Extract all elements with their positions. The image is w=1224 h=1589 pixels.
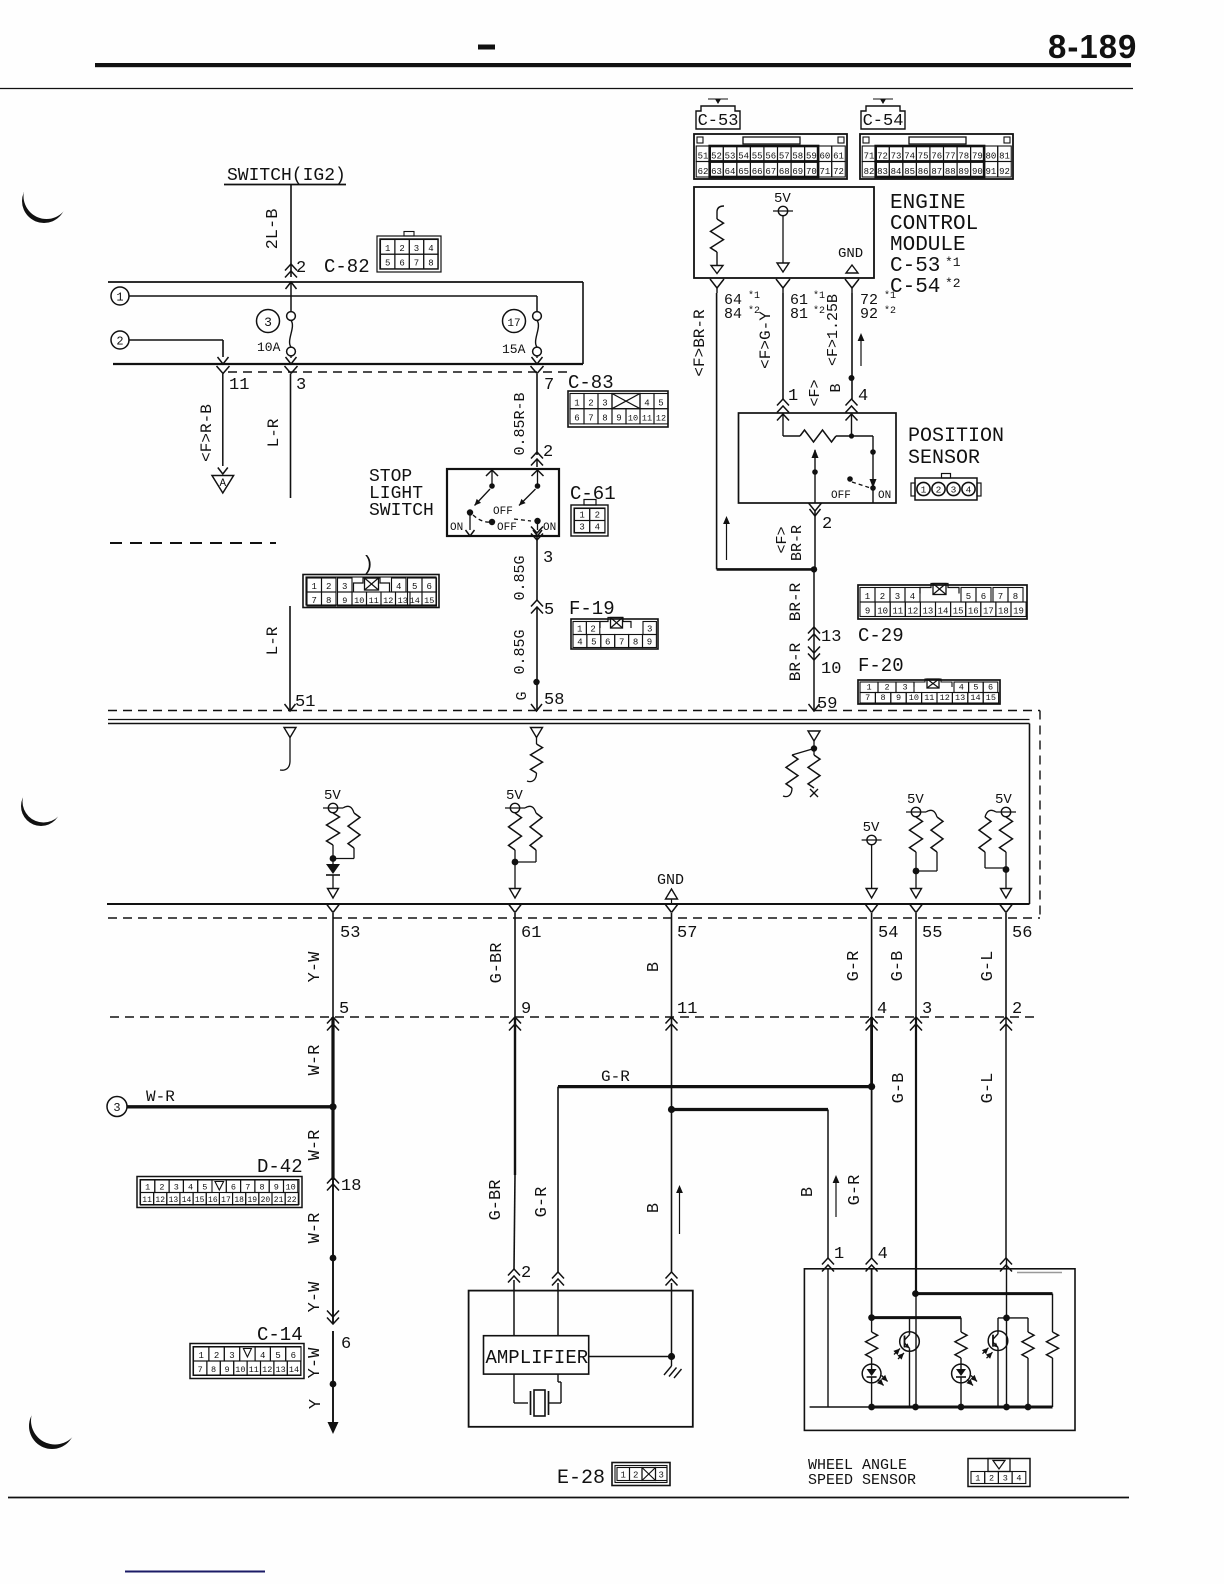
svg-text:56: 56 [765,151,776,161]
node 1 [111,287,129,305]
connector C-14 pin grid [190,1344,304,1379]
svg-text:7: 7 [619,637,624,647]
svg-text:75: 75 [918,151,929,161]
svg-text:5: 5 [591,637,596,647]
wire G-B (55-3) [915,913,917,1017]
svg-text:7: 7 [312,596,317,606]
amplifier input wires inside box [513,1280,515,1336]
svg-text:9: 9 [342,596,347,606]
wire B inside wheel box [827,1269,829,1407]
svg-text:6: 6 [341,1335,351,1354]
svg-text:8: 8 [1013,592,1018,602]
harness pin 3 [910,1017,922,1024]
svg-text:7: 7 [588,414,593,424]
svg-text:OFF: OFF [831,490,851,502]
wire Y-W lower [332,1331,334,1384]
svg-text:76: 76 [931,151,942,161]
svg-text:15: 15 [195,1196,205,1205]
svg-text:10: 10 [877,606,888,616]
svg-text:G-B: G-B [889,951,908,982]
svg-text:L-R: L-R [264,626,282,655]
svg-text:W-R: W-R [146,1088,175,1106]
svg-text:1: 1 [975,1473,980,1483]
svg-text:83: 83 [877,167,888,177]
svg-text:3: 3 [229,1351,234,1361]
thick link G-R node [872,1316,961,1319]
potentiometer resistor [800,430,836,442]
switch left pole [486,470,498,476]
resistor branch inner right [1027,1318,1029,1332]
svg-text:2: 2 [399,244,404,254]
svg-text:12: 12 [262,1365,272,1375]
svg-text:11: 11 [369,596,379,606]
svg-text:2: 2 [884,682,889,692]
svg-text:3: 3 [414,244,419,254]
svg-text:4: 4 [260,1351,265,1361]
svg-text:POSITION: POSITION [908,425,1004,448]
wire (F)G-Y from pin 61 [782,293,784,399]
junction dot G-L inside box [1003,1315,1010,1322]
svg-text:4: 4 [877,1000,887,1019]
control unit box [108,719,1030,721]
svg-text:72: 72 [833,167,844,177]
svg-text:L-R: L-R [265,418,283,447]
svg-text:8: 8 [602,414,607,424]
svg-text:4: 4 [878,1245,888,1264]
svg-text:7: 7 [865,693,870,703]
node 3 [107,1097,127,1117]
wire 0.85G lower [536,607,538,711]
svg-text:E-28: E-28 [557,1467,605,1490]
wire 2L-B [290,185,292,278]
wire G-B through box [915,1294,917,1407]
wheel sensor pin 1 [822,1258,834,1265]
svg-text:Y-W: Y-W [306,1281,325,1312]
resistor LED1 branch [871,1269,873,1318]
amplifier pin 2 [508,1269,520,1276]
svg-text:91: 91 [986,167,997,177]
svg-text:G-B: G-B [890,1073,909,1104]
position sensor pin 1 [777,399,789,406]
svg-text:92: 92 [999,167,1010,177]
svg-text:4: 4 [428,244,433,254]
wire Y-W (53-5) [332,913,334,1017]
svg-text:61: 61 [833,151,844,161]
svg-text:5: 5 [973,682,978,692]
svg-text:57: 57 [677,924,697,943]
svg-text:C-53: C-53 [890,255,940,278]
svg-text:C-82: C-82 [324,256,370,278]
svg-text:4: 4 [858,387,868,406]
svg-text:12: 12 [155,1196,165,1205]
resistor LED2 branch [960,1318,962,1332]
connector C-29 pin grid [858,585,1027,619]
position sensor pin 4 [846,399,858,406]
svg-text:5V: 5V [774,191,791,207]
svg-text:SWITCH(IG2): SWITCH(IG2) [227,166,346,186]
svg-text:77: 77 [945,151,956,161]
svg-text:4: 4 [966,485,972,496]
control unit dashed boundary [108,710,1040,712]
svg-text:79: 79 [972,151,983,161]
junction dot on G wire [533,679,539,685]
sensor switch ON contact [872,436,874,480]
svg-text:2: 2 [543,443,553,462]
svg-text:6: 6 [988,682,993,692]
svg-text:11: 11 [642,414,652,424]
svg-text:3: 3 [543,549,553,568]
svg-text:9: 9 [616,414,621,424]
svg-text:14: 14 [289,1365,299,1375]
svg-text:11: 11 [892,606,903,616]
svg-text:53: 53 [725,151,736,161]
stop light switch box [447,469,559,536]
svg-text:13: 13 [169,1196,179,1205]
svg-text:22: 22 [287,1196,297,1205]
svg-text:17: 17 [507,318,520,330]
svg-text:5: 5 [339,1000,349,1019]
svg-text:<F>1.25B: <F>1.25B [825,294,842,366]
svg-text:15: 15 [424,596,434,606]
wire G-L down to wheel sensor [1005,1017,1007,1258]
svg-text:81: 81 [790,306,808,323]
connector F-20 pin grid [858,680,1000,704]
amplifier output line [589,1356,672,1358]
svg-text:<F>G-Y: <F>G-Y [757,311,775,369]
svg-text:2: 2 [326,582,331,592]
svg-text:<F>R-B: <F>R-B [198,404,216,462]
svg-text:59: 59 [806,151,817,161]
svg-text:2: 2 [214,1351,219,1361]
svg-text:OFF: OFF [497,522,517,534]
svg-text:4: 4 [644,399,649,409]
svg-text:51: 51 [295,693,315,712]
position sensor box [739,413,897,503]
svg-text:1: 1 [198,1351,203,1361]
connector D-42 pin grid [137,1177,302,1208]
fuse 17 (15A) [503,310,526,333]
up arrow beside 1.25B wire [860,335,862,366]
wire G-L through box [1006,1318,1008,1407]
connector C-53 pin grid [694,134,847,179]
svg-text:51: 51 [698,151,709,161]
svg-text:10: 10 [909,693,919,703]
LED D2 [952,1364,971,1383]
C-82 pin 2 wire crossing into block [286,282,297,289]
svg-text:*1: *1 [813,290,825,302]
svg-text:W-R: W-R [306,1213,325,1244]
wire G-BR to amplifier [514,1017,516,1175]
svg-text:11: 11 [924,693,934,703]
svg-text:4: 4 [959,682,964,692]
svg-text:2: 2 [116,335,123,349]
svg-text:3: 3 [296,376,306,395]
wire B corner down to wheel sensor [827,1110,829,1259]
wire Y with end arrow [332,1384,334,1424]
C-61 pin 2 [531,452,543,459]
svg-text:5: 5 [385,259,390,269]
junction dot on Y wire [330,1381,337,1388]
svg-text:0.85G: 0.85G [512,555,529,600]
svg-text:G-R: G-R [601,1068,630,1086]
header thin rule [0,88,1133,90]
wire BR-R to C-29 [813,569,815,711]
wire 0.85G upper [536,536,538,600]
svg-text:7: 7 [198,1365,203,1375]
harness pin 4 [866,1017,878,1024]
svg-text:5: 5 [658,399,663,409]
terminal 58 internal resistor [531,728,543,738]
harness pin 2 [1000,1017,1012,1024]
position sensor connector icon [915,478,977,500]
svg-text:2: 2 [880,592,885,602]
svg-text:CONTROL: CONTROL [890,213,978,236]
wire W-R horizontal [127,1105,333,1108]
wire (F)1.25B from pin 72 [851,293,853,399]
wire W-R lower [332,1180,334,1258]
wheel sensor box [804,1269,1075,1431]
svg-text:2: 2 [159,1182,164,1192]
connector F-20 crossing pin 10 [808,654,820,661]
wire G-R down to wheel sensor [870,1017,873,1087]
ground/page marker triangle A [218,468,228,475]
connector C-29 crossing pin 13 [808,627,820,634]
svg-text:5V: 5V [995,792,1012,808]
svg-text:4: 4 [595,522,600,532]
svg-text:GND: GND [657,872,684,889]
phototransistor Q2 [997,1318,999,1331]
svg-text:1: 1 [312,582,317,592]
svg-text:*1: *1 [884,290,896,302]
connector C-14 crossing pin 6 [327,1318,339,1325]
svg-text:5: 5 [202,1182,207,1192]
wire G-L (56-2) [1005,913,1007,1017]
svg-text:BR-R: BR-R [787,642,805,681]
svg-text:70: 70 [806,167,817,177]
svg-text:8: 8 [326,596,331,606]
svg-text:ON: ON [543,522,556,534]
junction dot G-R inside box [868,1314,875,1321]
svg-text:Y: Y [307,1399,326,1409]
svg-text:14: 14 [182,1196,192,1205]
svg-text:OFF: OFF [493,506,513,518]
svg-text:4: 4 [396,582,401,592]
svg-text:89: 89 [958,167,969,177]
svg-text:55: 55 [922,924,942,943]
harness pin 9 [509,1017,521,1024]
svg-text:BR-R: BR-R [787,582,805,621]
junction dot on W-R/Y-W wire [330,1255,337,1262]
svg-text:11: 11 [677,1000,697,1019]
svg-text:5V: 5V [324,788,341,804]
svg-text:F-20: F-20 [858,655,904,677]
wire Y-W mid [332,1258,334,1324]
svg-text:14: 14 [410,596,420,606]
svg-text:*2: *2 [945,276,961,291]
svg-text:1: 1 [385,244,390,254]
svg-text:AMPLIFIER: AMPLIFIER [486,1347,589,1369]
svg-text:5: 5 [412,582,417,592]
svg-text:6: 6 [981,592,986,602]
wire B horizontal link [672,1108,829,1111]
svg-text:B: B [645,962,664,972]
svg-text:SWITCH: SWITCH [369,501,434,521]
harness pin 11 [666,1017,678,1024]
svg-text:3: 3 [895,592,900,602]
svg-text:3: 3 [659,1470,664,1480]
svg-text:12: 12 [940,693,950,703]
svg-text:58: 58 [544,691,564,710]
amplifier outer box [469,1291,693,1427]
svg-text:6: 6 [291,1351,296,1361]
wire (F)R-B [222,374,224,466]
svg-text:5V: 5V [907,792,924,808]
svg-text:BR-R: BR-R [789,525,806,561]
fuse 3 (10A) [257,310,280,333]
wire from node 1 to fuse 17 [129,295,537,297]
header small dash [478,45,495,50]
fuse 17 output crossing pin 7 [536,356,538,358]
svg-text:6: 6 [231,1182,236,1192]
svg-text:16: 16 [208,1196,218,1205]
svg-text:7: 7 [414,259,419,269]
svg-text:13: 13 [398,596,408,606]
svg-text:G-BR: G-BR [487,1180,506,1221]
svg-text:8-189: 8-189 [1048,28,1137,65]
svg-text:4: 4 [910,592,915,602]
wire (F)BR-R from pin 64 [716,293,718,569]
svg-text:14: 14 [970,693,980,703]
thick link G-B node [916,1292,1053,1295]
svg-text:13: 13 [923,606,934,616]
svg-text:86: 86 [918,167,929,177]
svg-text:10A: 10A [257,340,281,355]
svg-text:C-53: C-53 [698,112,739,131]
svg-text:11: 11 [142,1196,152,1205]
wire W-R vertical thick [331,1017,334,1180]
svg-text:6: 6 [605,637,610,647]
svg-text:66: 66 [752,167,763,177]
svg-text:GND: GND [838,246,863,262]
ground bus thin part [810,1406,872,1408]
phototransistor Q1 [909,1318,911,1332]
G-R corner down to amplifier [557,1087,559,1272]
svg-text:2: 2 [588,399,593,409]
svg-text:80: 80 [986,151,997,161]
punch hole middle [21,781,65,827]
svg-text:ENGINE: ENGINE [890,192,966,215]
svg-text:9: 9 [521,1000,531,1019]
svg-text:90: 90 [972,167,983,177]
wire 0.85R-B [536,374,538,455]
LED D1 [862,1364,881,1383]
connector C-82 pin grid [377,236,441,272]
svg-text:C-14: C-14 [257,1324,303,1346]
svg-text:2: 2 [936,485,942,496]
svg-text:): ) [362,554,374,577]
svg-text:58: 58 [792,151,803,161]
svg-text:9: 9 [896,693,901,703]
svg-text:F-19: F-19 [569,598,615,620]
svg-text:2: 2 [590,624,595,634]
junction dot BR-R node [811,566,817,572]
crystal resonator [513,1374,515,1403]
G-L top link [1006,1258,1008,1318]
svg-text:2: 2 [595,510,600,520]
svg-text:8: 8 [428,259,433,269]
wire L-R upper [290,374,292,498]
punch hole top [22,173,70,223]
svg-text:74: 74 [904,151,915,161]
resistor branch right outer [1052,1294,1054,1332]
svg-text:3: 3 [579,522,584,532]
switch linkage dashed [473,515,491,522]
svg-text:71: 71 [820,167,831,177]
svg-text:7: 7 [998,592,1003,602]
svg-text:9: 9 [865,606,870,616]
wire B to amplifier [671,1017,673,1272]
svg-text:16: 16 [968,606,979,616]
svg-text:5: 5 [966,592,971,602]
chassis ground [671,1357,673,1367]
terminal 59 internal resistor pair [808,731,820,741]
svg-text:10: 10 [628,414,638,424]
svg-text:C-61: C-61 [570,483,616,505]
switch output pin 3 [531,534,543,541]
svg-text:18: 18 [341,1177,361,1196]
svg-text:C-54: C-54 [890,276,940,299]
svg-text:8: 8 [211,1365,216,1375]
svg-text:10: 10 [354,596,364,606]
svg-text:57: 57 [779,151,790,161]
svg-text:53: 53 [340,924,360,943]
svg-text:54: 54 [878,924,898,943]
svg-text:G-R: G-R [846,1175,865,1206]
svg-text:A: A [219,478,226,490]
svg-text:3: 3 [264,315,272,330]
svg-text:15: 15 [953,606,964,616]
svg-text:10: 10 [821,660,841,679]
connector F-19 pin grid [571,619,658,649]
connector C-53 tab [696,106,740,129]
sensor pin 1 wire into box [777,414,789,421]
svg-text:*2: *2 [884,305,896,317]
svg-text:G-L: G-L [979,1073,998,1104]
svg-text:3: 3 [342,582,347,592]
wire G-R (54-4) [871,913,873,1017]
svg-text:85: 85 [904,167,915,177]
svg-text:0.85R-B: 0.85R-B [512,392,529,455]
svg-text:5V: 5V [863,820,880,836]
svg-text:1: 1 [865,592,870,602]
svg-text:13: 13 [821,628,841,647]
connector C-54 tab [861,106,905,129]
svg-text:55: 55 [752,151,763,161]
svg-text:ON: ON [878,490,891,502]
footer rule [8,1497,1129,1499]
node 2 [111,331,129,349]
svg-text:1: 1 [621,1470,626,1480]
svg-text:17: 17 [983,606,994,616]
svg-text:G-L: G-L [979,951,998,982]
svg-text:2L-B: 2L-B [264,209,283,250]
wire G-BR (61-9) [514,913,516,1017]
svg-text:60: 60 [820,151,831,161]
svg-text:54: 54 [738,151,749,161]
svg-text:<F>BR-R: <F>BR-R [691,309,709,377]
svg-text:1: 1 [116,291,123,305]
svg-text:*1: *1 [748,290,760,302]
